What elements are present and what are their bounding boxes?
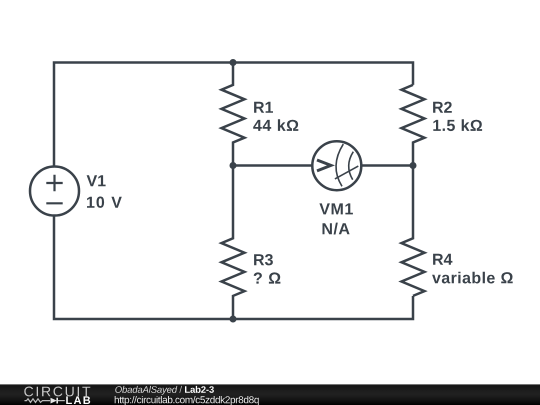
- logo resistor art: [25, 399, 51, 403]
- logo wordmark LAB: [66, 396, 90, 404]
- voltmeter VM1: [312, 141, 361, 190]
- footer author name: [115, 386, 177, 395]
- node at R1 top: [230, 59, 237, 66]
- resistor R2: [402, 85, 425, 166]
- footer separator: [179, 386, 182, 393]
- voltage source V1: [30, 167, 79, 216]
- logo diode art: [51, 398, 57, 404]
- value 10 V: [87, 197, 122, 208]
- node at R1/R3/voltmeter junction: [230, 162, 237, 169]
- value 44 kΩ: [253, 119, 298, 131]
- value ? Ω: [254, 272, 281, 283]
- resistor R1: [222, 63, 245, 166]
- value 1.5 kΩ: [433, 119, 482, 131]
- resistor R3: [222, 166, 245, 320]
- resistor R4: [402, 166, 425, 296]
- label VM1: [319, 203, 353, 214]
- wire bottom rail: left riser, bottom run, rise to R4: [54, 216, 413, 319]
- label R3: [254, 254, 273, 265]
- value variable Ω: [432, 272, 513, 284]
- node at R2/R4/voltmeter junction: [410, 162, 417, 169]
- wire middle right (voltmeter to node): [362, 164, 413, 167]
- node at R3 bottom: [230, 316, 237, 323]
- label V1: [87, 175, 106, 186]
- label R4: [433, 254, 452, 265]
- footer bar: [0, 384, 540, 405]
- label R2: [433, 102, 452, 113]
- logo wordmark CIRCUIT: [24, 387, 90, 397]
- label R1: [254, 102, 273, 113]
- wire top rail: left riser, top run, drop to R2: [54, 63, 413, 167]
- footer title Lab2-3: [185, 386, 214, 393]
- wire middle left (node to voltmeter): [233, 164, 312, 167]
- value N/A: [323, 223, 350, 235]
- footer url: [115, 396, 259, 405]
